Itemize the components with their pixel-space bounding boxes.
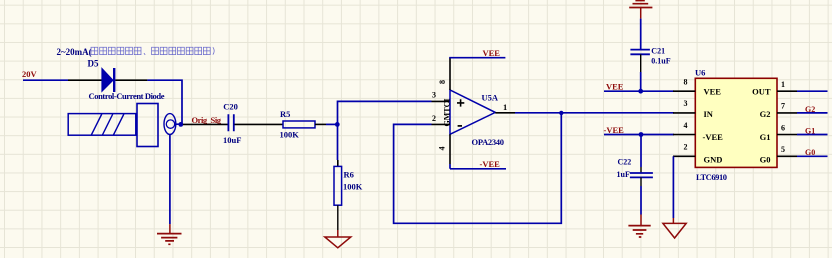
- chip pin 6 wire G1: [777, 123, 828, 135]
- op-amp pin8 to VEE: [449, 58, 505, 90]
- power port VEE (chip): [606, 81, 624, 91]
- wire sensor to ground: [169, 134, 171, 233]
- svg-text:3: 3: [684, 99, 688, 108]
- capacitor C20: [223, 101, 241, 145]
- chip pin 8 stub: [673, 78, 695, 92]
- svg-text:1: 1: [781, 80, 785, 89]
- net label Orig_Sig: [192, 115, 222, 125]
- svg-text:VEE: VEE: [483, 48, 501, 58]
- wire junction up to op-amp pin3: [338, 101, 451, 124]
- wire 20V to diode: [23, 79, 68, 81]
- diode D5: [68, 59, 165, 102]
- svg-text:OPA2340: OPA2340: [472, 137, 505, 147]
- annotation 2~20mA note: [57, 47, 215, 57]
- wire ground to C21: [640, 19, 642, 50]
- svg-text:7: 7: [781, 102, 785, 111]
- op-amp pin4 to -VEE: [450, 134, 506, 169]
- svg-text:-VEE: -VEE: [480, 159, 501, 169]
- svg-text:Control-Current Diode: Control-Current Diode: [89, 91, 165, 101]
- wire C21 to VEE rail: [640, 54, 642, 91]
- resistor R6: [334, 166, 363, 205]
- svg-text:4: 4: [438, 147, 447, 151]
- chip pin 4 stub: [673, 121, 695, 135]
- wire R5 to junction: [315, 123, 337, 125]
- power port 20V: [22, 69, 38, 79]
- junction node VEE/C21: [638, 89, 643, 94]
- sensor transducer block: [137, 104, 158, 147]
- ground (earth) under C22: [628, 226, 650, 237]
- svg-text:2: 2: [684, 143, 688, 152]
- op-amp output wire: [495, 112, 674, 114]
- feedback loop wire: [394, 113, 562, 224]
- svg-text:G0: G0: [805, 148, 815, 157]
- svg-text:R5: R5: [280, 109, 290, 119]
- svg-text:20V: 20V: [22, 69, 38, 79]
- svg-text:IN: IN: [704, 109, 714, 119]
- wire R6 to ground: [337, 205, 339, 237]
- wire junction down to R6: [337, 124, 339, 166]
- wire -VEE rail: [604, 134, 674, 136]
- wire sensor to junction: [175, 123, 183, 125]
- svg-text:-VEE: -VEE: [604, 125, 625, 135]
- junction node -VEE/C22: [639, 132, 644, 137]
- svg-text:OUT: OUT: [752, 87, 771, 97]
- resistor R5: [280, 109, 316, 140]
- ground (triangle) under R6: [325, 237, 351, 248]
- svg-text:2: 2: [432, 114, 436, 123]
- capacitor C22: [617, 157, 653, 179]
- ground (earth, inverted) above C21: [629, 1, 652, 19]
- svg-text:-VEE: -VEE: [703, 132, 724, 142]
- wire C20 to R5: [235, 123, 284, 125]
- junction node at output: [559, 111, 563, 115]
- chip pin 1 wire OUT: [777, 80, 828, 91]
- svg-text:LTC6910: LTC6910: [696, 172, 727, 182]
- svg-text:C20: C20: [223, 101, 238, 111]
- chip pin 3 stub: [673, 99, 695, 113]
- ground (earth) under sensor: [157, 234, 182, 245]
- svg-text:D5: D5: [88, 59, 99, 69]
- svg-text:3: 3: [432, 91, 436, 100]
- chip pin 7 wire G2: [777, 102, 828, 114]
- chip pin names right: [752, 87, 771, 165]
- svg-text:GND: GND: [704, 155, 723, 165]
- chip pin 2 stub: [673, 143, 695, 157]
- op-amp U5A: [432, 80, 507, 151]
- svg-text:G2: G2: [805, 105, 815, 114]
- wire pin2 to ground: [672, 156, 674, 223]
- svg-text:VEE: VEE: [606, 81, 624, 91]
- sensor output electrode: [164, 114, 176, 135]
- svg-text:U6: U6: [695, 68, 705, 78]
- wire C22 to ground: [640, 177, 642, 225]
- wire VEE rail: [604, 90, 674, 92]
- svg-text:VEE: VEE: [704, 87, 722, 97]
- svg-text:1: 1: [503, 102, 507, 112]
- svg-text:G2: G2: [760, 109, 771, 119]
- power port -VEE (op-amp): [480, 159, 501, 169]
- svg-text:G1: G1: [760, 132, 771, 142]
- svg-text:Orig_Sig: Orig_Sig: [192, 115, 222, 125]
- chip pin names left: [703, 87, 724, 165]
- svg-text:G1: G1: [805, 127, 815, 136]
- svg-text:2~20mA(: 2~20mA(: [57, 47, 92, 57]
- wire junction to C20: [183, 123, 228, 125]
- power port VEE (op-amp): [483, 48, 501, 58]
- ground (triangle) at chip: [663, 223, 686, 238]
- svg-text:C21: C21: [651, 47, 665, 56]
- power port -VEE (chip): [604, 125, 625, 135]
- svg-text:G0: G0: [760, 155, 771, 165]
- capacitor C21: [630, 47, 670, 66]
- svg-text:C22: C22: [618, 157, 632, 166]
- svg-text:100K: 100K: [280, 130, 300, 140]
- svg-text:GMTCI: GMTCI: [442, 99, 451, 127]
- op-amp pin2 stub: [432, 123, 451, 125]
- sensor body (hatched box): [68, 114, 136, 136]
- chip U6 LTC6910 body: [695, 68, 777, 182]
- junction node Orig_Sig: [178, 122, 183, 127]
- svg-text:U5A: U5A: [482, 92, 499, 102]
- wire diode to sensor junction: [147, 80, 182, 124]
- svg-text:5: 5: [781, 145, 785, 154]
- wire -VEE to C22: [640, 135, 642, 173]
- svg-text:R6: R6: [344, 170, 354, 180]
- svg-text:100K: 100K: [343, 182, 363, 192]
- junction node at R6 top: [335, 122, 340, 127]
- svg-text:6: 6: [781, 123, 785, 132]
- svg-text:10uF: 10uF: [223, 135, 241, 145]
- svg-text:0.1uF: 0.1uF: [651, 56, 670, 65]
- chip pin 5 wire G0: [777, 145, 828, 157]
- svg-text:4: 4: [684, 121, 688, 130]
- svg-text:1uF: 1uF: [617, 170, 630, 179]
- svg-text:8: 8: [684, 78, 688, 87]
- svg-text:8: 8: [438, 80, 447, 84]
